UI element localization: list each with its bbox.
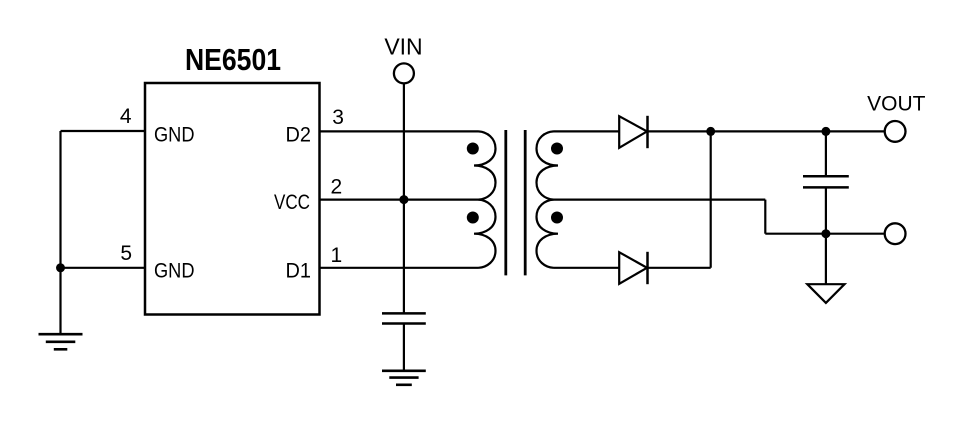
polarity dot secondary bottom bbox=[551, 212, 563, 224]
svg-text:VIN: VIN bbox=[384, 33, 422, 59]
ground below C1 bbox=[382, 371, 426, 385]
wire pin5 to left vertical bbox=[61, 267, 146, 269]
ground left bbox=[39, 334, 83, 349]
wire VIN vertical bbox=[403, 83, 405, 313]
wire D1 (pin 1) bbox=[320, 267, 479, 269]
wire C1 to ground bbox=[403, 324, 405, 371]
wire secondary bottom to diode bbox=[554, 267, 620, 269]
wire pin4 to left vertical bbox=[61, 130, 146, 132]
transformer T1 primary winding bottom bbox=[474, 200, 496, 268]
junction dot top rail at C2 bbox=[821, 127, 830, 136]
wire left vertical bbox=[59, 131, 61, 334]
svg-text:D2: D2 bbox=[286, 124, 312, 147]
wire VCC (pin 2) bbox=[320, 199, 479, 201]
svg-text:D1: D1 bbox=[286, 260, 312, 283]
transformer T1 secondary winding bottom bbox=[537, 200, 559, 268]
terminal VIN bbox=[394, 63, 414, 83]
svg-text:1: 1 bbox=[331, 244, 343, 267]
wire diode bottom to vertical riser bbox=[648, 267, 711, 269]
svg-text:GND: GND bbox=[154, 124, 195, 147]
op-amp U1 NE6501 IC body bbox=[145, 83, 320, 315]
svg-text:4: 4 bbox=[120, 105, 132, 128]
capacitor C1 (VIN decoupling) bbox=[382, 313, 426, 323]
wire riser bottom diode to top rail bbox=[710, 131, 712, 267]
chassis ground triangle bbox=[807, 284, 844, 303]
terminal VOUT- bbox=[885, 223, 906, 244]
polarity dot primary bottom bbox=[467, 212, 479, 224]
capacitor C2 (output) bbox=[803, 176, 849, 187]
wire center tap jog down bbox=[764, 200, 766, 234]
svg-text:3: 3 bbox=[332, 106, 344, 129]
transformer core bbox=[506, 130, 525, 275]
svg-text:5: 5 bbox=[120, 242, 132, 265]
svg-text:GND: GND bbox=[154, 260, 195, 283]
junction dot lower rail at C2 bbox=[821, 229, 830, 238]
svg-text:2: 2 bbox=[331, 176, 343, 199]
diode D_top cathode bar bbox=[646, 116, 649, 148]
diode D_bot cathode bar bbox=[646, 252, 649, 284]
polarity dot primary top bbox=[467, 143, 479, 155]
wire diode to output top bbox=[648, 130, 885, 132]
diode D_bot bbox=[619, 252, 647, 284]
wire secondary top to diode bbox=[554, 130, 620, 132]
wire top rail to C2 bbox=[825, 131, 827, 176]
junction dot pin5/left vertical bbox=[56, 263, 65, 272]
terminal VOUT+ bbox=[885, 121, 906, 142]
wire lower output rail bbox=[765, 233, 884, 235]
junction dot top rail left bbox=[706, 127, 715, 136]
transformer T1 primary winding top bbox=[474, 131, 496, 199]
wire D2 (pin 3) bbox=[320, 130, 479, 132]
svg-text:NE6501: NE6501 bbox=[185, 42, 281, 77]
svg-text:VOUT: VOUT bbox=[867, 93, 926, 116]
junction dot VCC/VIN bbox=[399, 195, 408, 204]
polarity dot secondary top bbox=[551, 143, 563, 155]
transformer T1 secondary winding top bbox=[537, 131, 559, 199]
wire C2 to lower rail bbox=[825, 187, 827, 233]
wire secondary center tap bbox=[554, 199, 766, 201]
wire lower rail to chassis ground bbox=[825, 234, 827, 285]
svg-text:VCC: VCC bbox=[274, 191, 310, 214]
diode D_top bbox=[619, 116, 647, 148]
